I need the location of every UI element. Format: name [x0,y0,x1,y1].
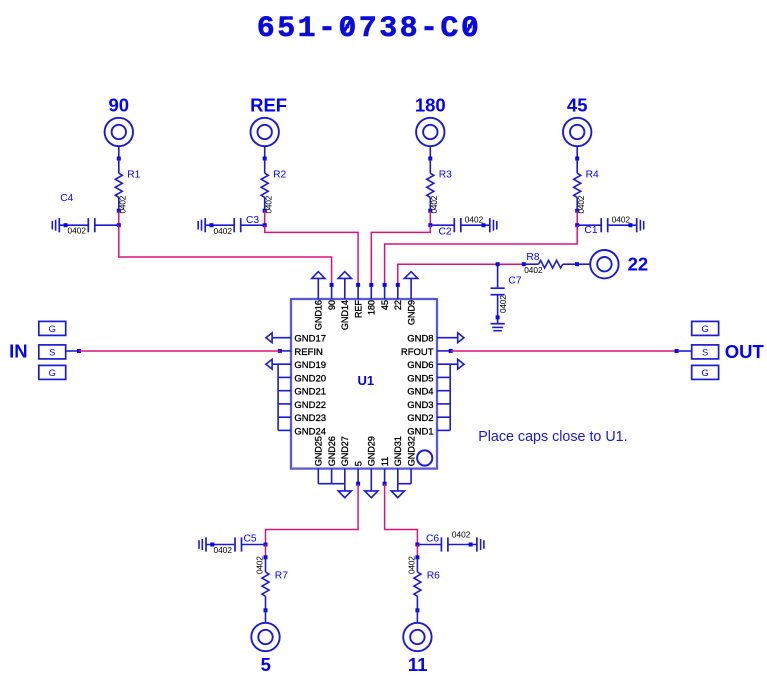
svg-text:R7: R7 [275,571,288,582]
svg-text:22: 22 [628,253,649,274]
svg-text:0402: 0402 [612,214,631,224]
svg-text:GND9: GND9 [406,300,416,325]
svg-text:G: G [701,368,708,378]
svg-text:GND16: GND16 [314,300,324,330]
svg-text:GND32: GND32 [406,436,416,466]
svg-text:0402: 0402 [407,556,417,574]
svg-text:GND24: GND24 [294,426,326,437]
svg-text:R2: R2 [273,169,286,180]
svg-text:G: G [701,324,708,334]
svg-text:GND8: GND8 [407,334,433,345]
svg-text:GND17: GND17 [294,334,326,345]
svg-text:R4: R4 [586,169,599,180]
svg-text:22: 22 [393,300,403,310]
svg-text:45: 45 [567,95,588,116]
svg-text:0402: 0402 [214,226,233,236]
svg-text:GND21: GND21 [294,387,326,398]
svg-text:0402: 0402 [452,530,471,540]
svg-text:5: 5 [353,461,363,466]
svg-text:GND6: GND6 [407,360,433,371]
svg-text:S: S [702,348,708,358]
svg-text:C3: C3 [246,215,259,226]
svg-text:REF: REF [353,300,363,318]
svg-text:R1: R1 [127,169,140,180]
svg-text:G: G [49,324,56,334]
svg-text:C5: C5 [244,534,257,545]
svg-text:GND3: GND3 [407,400,433,411]
svg-text:G: G [49,368,56,378]
svg-text:90: 90 [109,95,130,116]
svg-text:45: 45 [380,300,390,310]
svg-text:180: 180 [415,95,446,116]
svg-text:R8: R8 [526,252,539,263]
svg-text:C7: C7 [508,275,521,286]
svg-text:0402: 0402 [68,225,87,235]
svg-text:0402: 0402 [214,545,233,555]
svg-text:GND27: GND27 [340,436,350,466]
svg-text:5: 5 [261,654,271,675]
svg-text:GND4: GND4 [407,387,433,398]
svg-text:180: 180 [367,300,377,315]
svg-text:GND26: GND26 [327,436,337,466]
svg-text:90: 90 [327,300,337,310]
svg-text:GND2: GND2 [407,413,433,424]
svg-text:GND25: GND25 [314,436,324,466]
svg-text:REFIN: REFIN [294,347,323,358]
svg-text:11: 11 [408,654,428,675]
svg-text:C6: C6 [426,534,439,545]
svg-text:GND14: GND14 [340,300,350,330]
svg-text:GND23: GND23 [294,413,326,424]
svg-text:651-0738-C0: 651-0738-C0 [257,12,481,46]
svg-text:0402: 0402 [255,556,265,574]
svg-text:11: 11 [380,457,390,466]
svg-text:0402: 0402 [524,265,543,275]
svg-text:C1: C1 [584,225,597,236]
svg-text:C2: C2 [439,226,452,237]
svg-text:0402: 0402 [465,214,484,224]
svg-text:IN: IN [9,340,28,361]
svg-text:GND29: GND29 [367,436,377,466]
svg-text:0402: 0402 [498,295,508,313]
svg-text:Place caps close to U1.: Place caps close to U1. [478,429,627,445]
svg-text:OUT: OUT [725,341,765,362]
svg-text:GND19: GND19 [294,360,326,371]
svg-text:GND5: GND5 [407,373,433,384]
svg-text:U1: U1 [357,373,374,388]
svg-text:GND1: GND1 [407,426,433,437]
svg-text:GND22: GND22 [294,400,326,411]
svg-text:R6: R6 [427,571,440,582]
svg-text:RFOUT: RFOUT [401,347,434,358]
svg-text:GND20: GND20 [294,373,326,384]
svg-text:C4: C4 [60,193,73,204]
svg-text:S: S [49,348,55,358]
svg-text:GND31: GND31 [393,436,403,466]
svg-text:REF: REF [250,95,287,116]
svg-text:R3: R3 [439,169,452,180]
